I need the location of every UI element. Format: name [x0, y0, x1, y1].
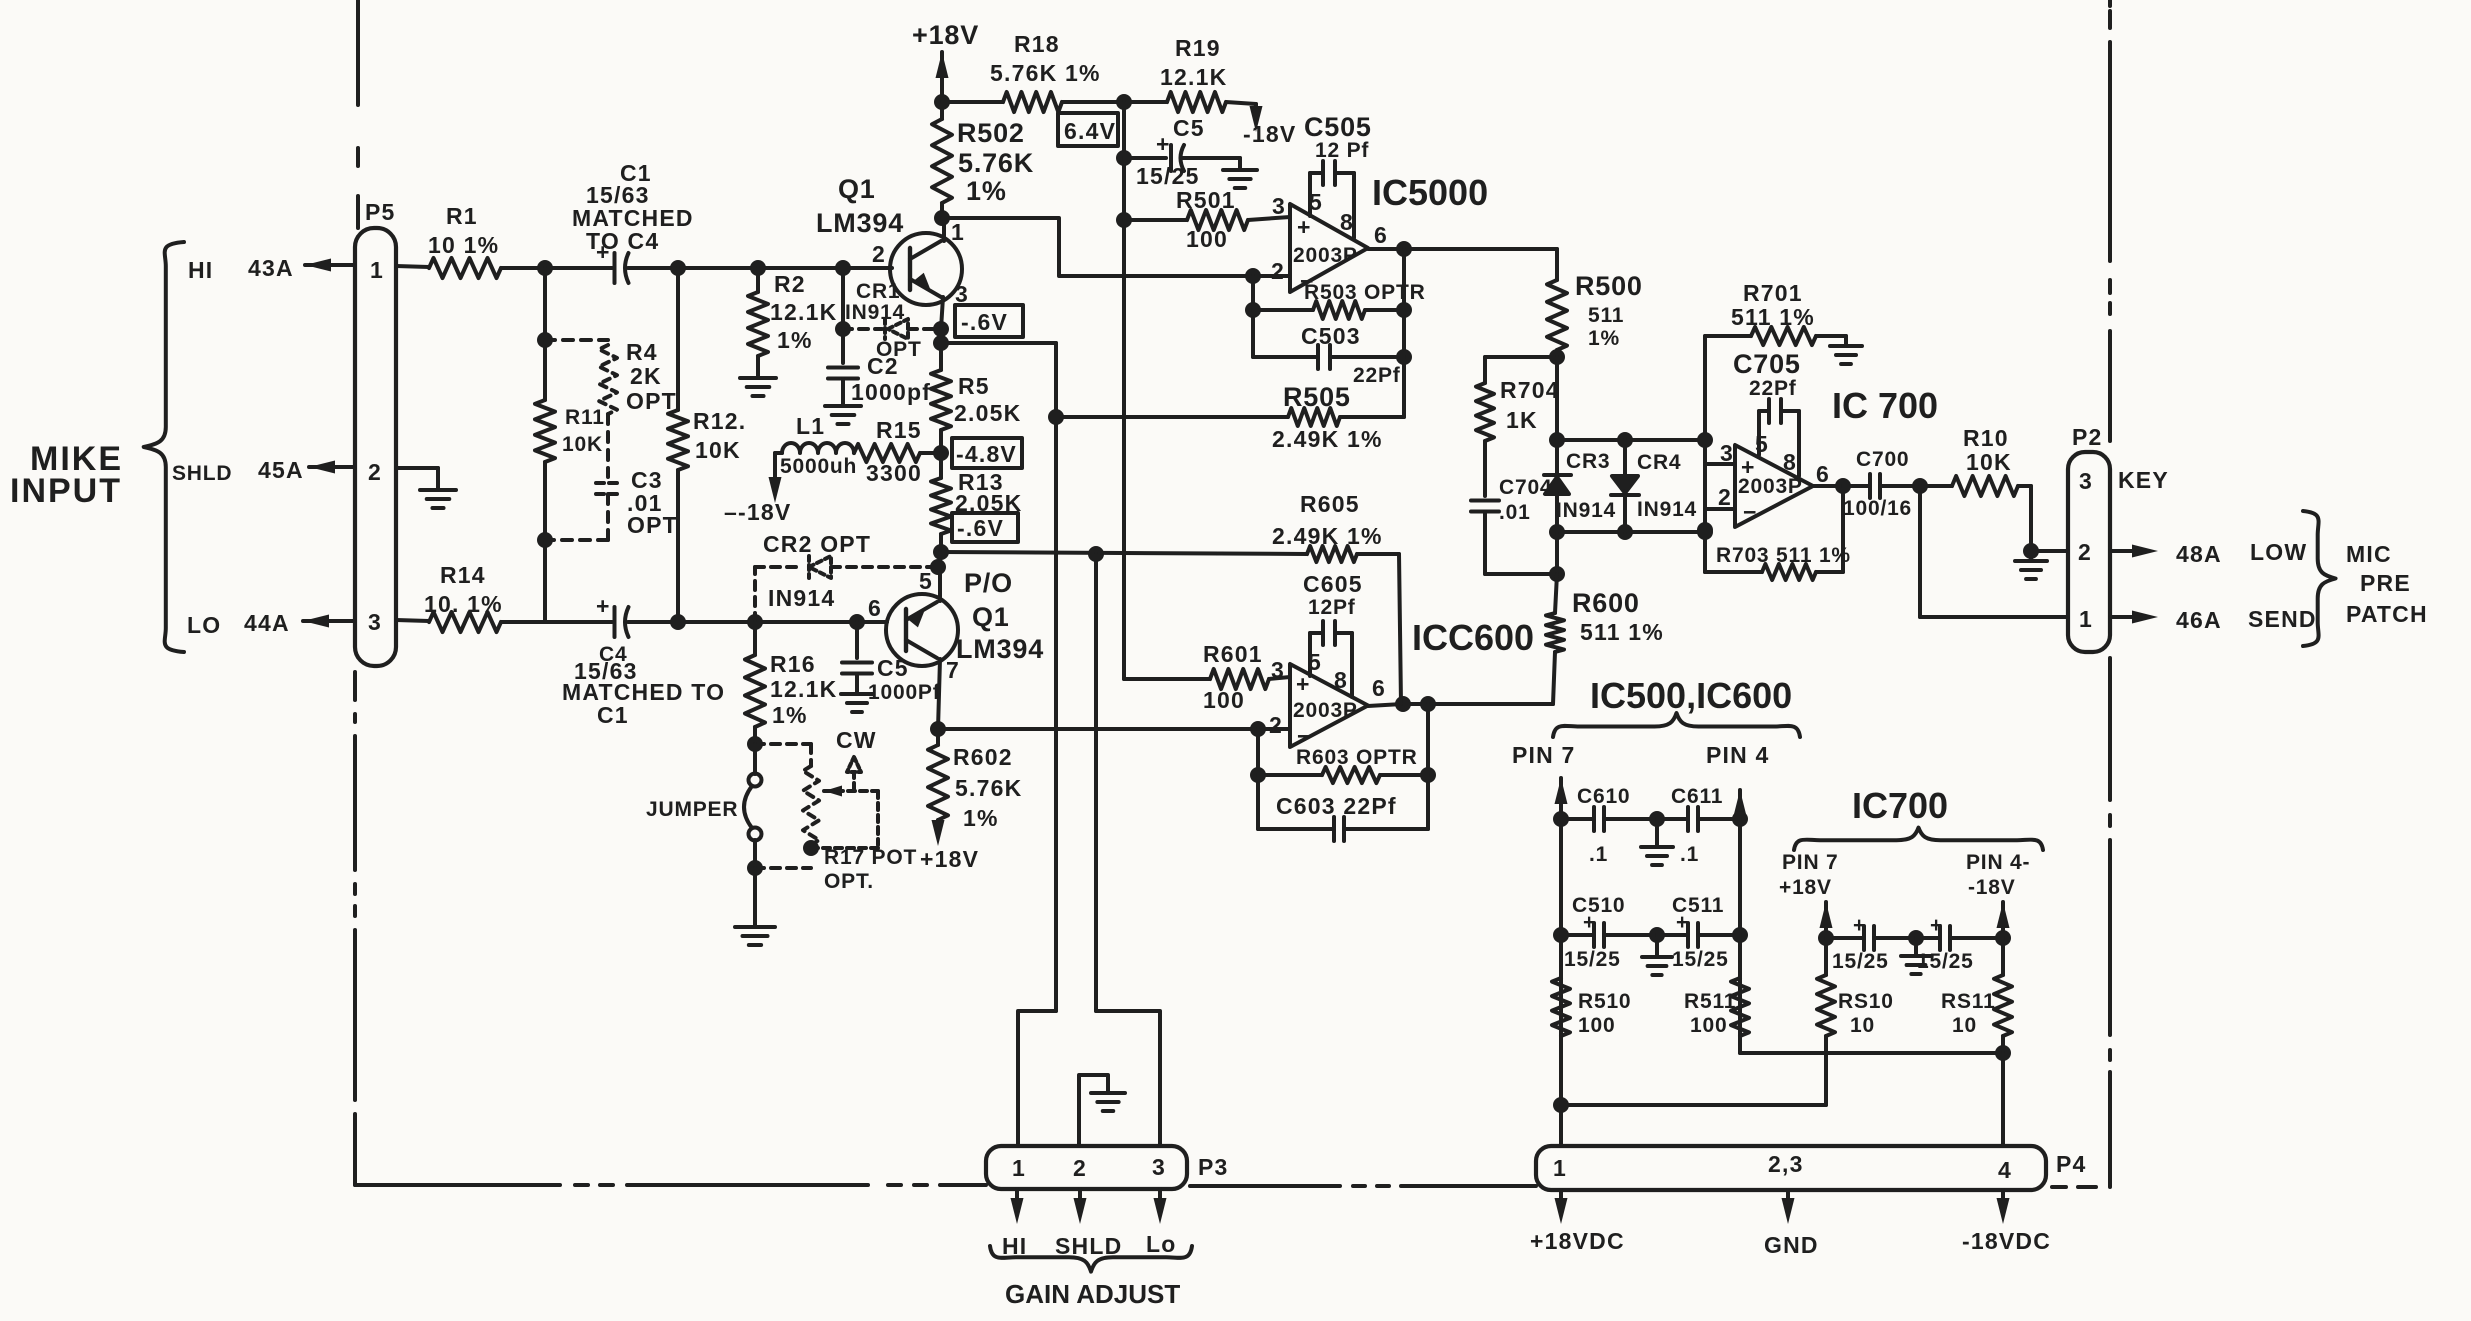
svg-text:+: +: [596, 593, 611, 619]
wire P2 pin1 out: [2110, 606, 2317, 633]
capacitor IC700 right 15/25: [1916, 914, 2003, 973]
wire IC700 input rail: [1697, 336, 1735, 572]
svg-text:IN914: IN914: [1556, 499, 1616, 522]
svg-text:R2: R2: [774, 271, 806, 297]
brace mike input: [144, 242, 184, 652]
pin 2 of P2: [2078, 539, 2092, 565]
node MIKE INPUT label: [10, 440, 123, 510]
brace IC700 power: [1794, 828, 2043, 850]
svg-text:Q1: Q1: [972, 602, 1010, 632]
svg-text:3: 3: [2079, 468, 2093, 494]
svg-text:2: 2: [1269, 712, 1283, 738]
svg-text:R703 511 1%: R703 511 1%: [1716, 544, 1851, 567]
resistor R503 (OPTR): [1253, 281, 1426, 319]
svg-text:10: 10: [1850, 1014, 1875, 1037]
capacitor C611: [1657, 785, 1740, 866]
wire C2 to ground: [841, 379, 845, 404]
resistor R510 (10): [1817, 975, 1894, 1105]
svg-text:R5: R5: [958, 373, 990, 399]
svg-text:IC500,IC600: IC500,IC600: [1590, 675, 1792, 716]
capacitor C3 (dashed, OPT): [596, 467, 678, 538]
svg-text:1: 1: [1553, 1155, 1567, 1181]
diode CR2 (dashed, OPT): [755, 531, 938, 622]
svg-text:R602: R602: [953, 744, 1013, 770]
ground between C610 C611: [1641, 811, 1673, 865]
svg-text:MATCHED TO: MATCHED TO: [562, 679, 725, 705]
svg-text:CR2 OPT: CR2 OPT: [763, 531, 871, 557]
capacitor IC700 left 15/25: [1826, 914, 1916, 973]
node SHLD 45A label: [172, 457, 304, 485]
resistor R605: [1272, 491, 1399, 562]
svg-text:.1: .1: [1589, 843, 1608, 866]
wire HI arrow: [305, 259, 355, 272]
svg-text:2003P: 2003P: [1738, 475, 1803, 498]
wire P4 pin2,3 arrow: [1782, 1190, 1795, 1224]
svg-text:C5: C5: [877, 655, 909, 681]
power -18V arrow (R19): [1243, 104, 1296, 147]
svg-text:2: 2: [368, 459, 382, 485]
svg-text:3: 3: [1720, 440, 1734, 466]
pin 4 of P4: [1998, 1157, 2012, 1183]
capacitor C704: [1471, 476, 1552, 524]
wire R1 to C1: [501, 260, 612, 276]
svg-text:C5: C5: [1173, 115, 1205, 141]
connector P5: [355, 199, 396, 666]
svg-text:15/25: 15/25: [1136, 163, 1200, 189]
svg-text:HI: HI: [188, 257, 213, 283]
svg-text:HI: HI: [1002, 1233, 1027, 1259]
pin 2,3 of P4: [1768, 1151, 1804, 1177]
node PIN 4 -18V label: [1966, 851, 2030, 899]
voltage label -.6V box (lower): [952, 513, 1018, 542]
wire IC500 output: [1368, 241, 1557, 257]
svg-text:IN914: IN914: [1637, 498, 1697, 521]
pin 1 of P2: [2079, 606, 2093, 632]
svg-text:R19: R19: [1175, 35, 1221, 61]
svg-text:15/25: 15/25: [1917, 950, 1974, 973]
pin 2 of P5: [368, 459, 382, 485]
resistor R602: [928, 729, 1022, 846]
svg-text:12.1K: 12.1K: [770, 299, 837, 325]
wire R510 bottom row: [1561, 1103, 1826, 1107]
svg-text:8: 8: [1340, 209, 1354, 235]
svg-text:10 1%: 10 1%: [428, 232, 499, 258]
voltage label -4.8V box: [952, 438, 1022, 468]
resistor R18: [942, 31, 1124, 112]
svg-text:PRE: PRE: [2360, 570, 2411, 596]
resistor R603 (OPTR): [1258, 746, 1428, 783]
wire P5 pin1 to R1: [396, 266, 429, 267]
svg-text:P2: P2: [2072, 424, 2103, 450]
svg-text:IC700: IC700: [1852, 785, 1948, 826]
wire P4 pin4 arrow: [1997, 1190, 2010, 1224]
svg-text:+: +: [1156, 131, 1171, 157]
brace mic pre patch: [2303, 511, 2336, 646]
svg-text:2: 2: [872, 241, 886, 267]
svg-text:1000pf: 1000pf: [851, 379, 931, 405]
node KEY label: [2118, 467, 2169, 493]
svg-text:1%: 1%: [1588, 327, 1620, 350]
wire P3 pin2 arrow: [1074, 1189, 1087, 1224]
svg-text:6: 6: [868, 595, 882, 621]
svg-text:-.6V: -.6V: [957, 515, 1004, 541]
svg-text:R601: R601: [1203, 641, 1263, 667]
ground at C2: [825, 406, 861, 424]
svg-text:SHLD: SHLD: [172, 462, 232, 485]
svg-text:2: 2: [2078, 539, 2092, 565]
capacitor C505: [1304, 112, 1372, 238]
svg-text:1000Pf: 1000Pf: [868, 681, 941, 704]
wire R13 node to R605: [941, 546, 1307, 562]
connector P2: [2068, 424, 2110, 652]
svg-text:P/O: P/O: [964, 568, 1013, 598]
svg-text:1%: 1%: [963, 805, 999, 831]
svg-text:100: 100: [1186, 226, 1228, 252]
resistor R14: [424, 562, 503, 632]
svg-text:TO C4: TO C4: [586, 228, 659, 254]
svg-text:PIN 4-: PIN 4-: [1966, 851, 2030, 874]
resistor R13: [931, 453, 1022, 552]
svg-text:R12.: R12.: [693, 408, 746, 434]
svg-text:10: 10: [1952, 1014, 1977, 1037]
svg-text:KEY: KEY: [2118, 467, 2169, 493]
svg-text:Q1: Q1: [838, 174, 876, 204]
capacitor C1: [572, 160, 694, 283]
node IC500,IC600 label: [1590, 675, 1792, 716]
ground at jumper: [735, 927, 775, 945]
svg-text:43A: 43A: [248, 255, 294, 281]
wire 6.4V rail: [1116, 102, 1132, 675]
capacitor C503: [1253, 323, 1404, 387]
wire IC600 fb rail: [1250, 704, 1436, 829]
svg-text:+18V: +18V: [920, 846, 979, 872]
power +18V arrow: [912, 20, 979, 102]
svg-text:R510: R510: [1578, 990, 1631, 1013]
wire C704 to R600 rail: [1485, 512, 1565, 582]
resistor R15: [854, 417, 941, 486]
op-amp IC5000 (2003P): [1271, 172, 1488, 294]
ground IC700 caps: [1901, 930, 1931, 974]
svg-text:LO: LO: [187, 612, 221, 638]
svg-text:22Pf: 22Pf: [1353, 364, 1401, 387]
svg-text:R11: R11: [565, 406, 605, 429]
svg-text:R14: R14: [440, 562, 486, 588]
node MIC PRE PATCH label: [2346, 541, 2428, 627]
op-amp IC700 (2003P): [1718, 385, 1938, 527]
node C700 output: [1912, 478, 1928, 494]
resistor R511 (100): [1684, 978, 1749, 1053]
op-amp ICC600 (2003P): [1269, 617, 1534, 749]
ground between C510 C511: [1642, 927, 1672, 975]
node PIN 7 +18V label: [1779, 851, 1839, 899]
wire R4 to C3 (dashed): [606, 414, 610, 477]
svg-text:8: 8: [1783, 449, 1797, 475]
svg-text:OPT: OPT: [626, 388, 677, 414]
svg-text:10K: 10K: [695, 437, 741, 463]
resistor R502: [932, 94, 1034, 226]
svg-text:6.4V: 6.4V: [1064, 118, 1116, 144]
svg-text:INPUT: INPUT: [10, 472, 122, 510]
resistor R5: [931, 329, 1021, 453]
svg-text:C610: C610: [1577, 785, 1630, 808]
wire Q1 collector to IC500 pin2: [942, 218, 1290, 284]
svg-text:C603 22Pf: C603 22Pf: [1276, 793, 1397, 819]
capacitor C511: [1657, 894, 1740, 971]
node PIN 4 label (left): [1706, 742, 1770, 768]
svg-text:C2: C2: [867, 353, 899, 379]
svg-text:5: 5: [919, 568, 933, 594]
svg-text:5.76K: 5.76K: [958, 148, 1034, 178]
svg-text:100: 100: [1203, 687, 1245, 713]
svg-text:R603 OPTR: R603 OPTR: [1296, 746, 1418, 769]
potentiometer R17 (dashed, OPT): [803, 727, 917, 893]
svg-text:100/16: 100/16: [1843, 497, 1912, 520]
wire Q1 base branch: [835, 260, 851, 337]
svg-text:C503: C503: [1301, 323, 1361, 349]
inductor L1: [780, 413, 857, 478]
resistor R510 (100): [1552, 978, 1631, 1037]
svg-text:4: 4: [1998, 1157, 2012, 1183]
svg-text:2.49K 1%: 2.49K 1%: [1272, 426, 1383, 452]
svg-text:7: 7: [946, 657, 960, 683]
wire jumper to R17 (dashed): [755, 866, 811, 870]
wire jumper to ground: [753, 868, 757, 925]
svg-text:10K: 10K: [562, 433, 603, 456]
svg-text:3300: 3300: [866, 460, 922, 486]
svg-text:IN914: IN914: [768, 585, 835, 611]
svg-text:2003P: 2003P: [1293, 244, 1358, 267]
svg-text:3: 3: [1271, 657, 1285, 683]
svg-text:R500: R500: [1575, 271, 1643, 301]
svg-text:.01: .01: [1499, 501, 1531, 524]
wire C4 to Q1b base: [628, 614, 887, 630]
svg-text:PATCH: PATCH: [2346, 601, 2428, 627]
wire right border (dash-dot): [2108, 0, 2112, 1187]
svg-text:2,3: 2,3: [1768, 1151, 1804, 1177]
svg-text:R1: R1: [446, 203, 478, 229]
capacitor C510: [1561, 894, 1657, 971]
svg-text:-.6V: -.6V: [961, 309, 1008, 335]
wire P5 pin2 to ground: [396, 468, 438, 488]
svg-text:+18V: +18V: [1779, 876, 1832, 899]
svg-text:3: 3: [1152, 1154, 1166, 1180]
ground at gain adjust: [1091, 1093, 1125, 1111]
transistor Q1 bottom (P/O LM394): [868, 568, 1044, 683]
resistor R703: [1705, 486, 1851, 580]
wire C1 to Q1 base: [628, 260, 892, 276]
svg-text:LOW: LOW: [2250, 539, 2307, 565]
svg-text:12Pf: 12Pf: [1308, 596, 1356, 619]
svg-text:6: 6: [1374, 222, 1388, 248]
svg-text:R15: R15: [876, 417, 922, 443]
pin 3 of P5: [368, 609, 382, 635]
svg-text:511 1%: 511 1%: [1580, 619, 1664, 645]
svg-text:C700: C700: [1856, 448, 1909, 471]
svg-text:IC 700: IC 700: [1832, 385, 1938, 426]
resistor R601: [1203, 641, 1290, 713]
svg-text:LM394: LM394: [956, 634, 1044, 664]
svg-text:-18V: -18V: [1243, 121, 1296, 147]
svg-text:1%: 1%: [772, 702, 808, 728]
svg-text:C611: C611: [1671, 785, 1723, 808]
svg-text:22Pf: 22Pf: [1749, 377, 1797, 400]
svg-text:12.1K: 12.1K: [770, 676, 837, 702]
jumper: [646, 744, 763, 876]
wire IC700 -18V rail: [1995, 902, 2011, 975]
wire Q1b collector: [930, 552, 946, 601]
svg-text:+18VDC: +18VDC: [1530, 1228, 1625, 1254]
svg-text:3: 3: [368, 609, 382, 635]
power -18V (L1): [724, 499, 791, 525]
svg-text:R501: R501: [1176, 187, 1236, 213]
svg-text:R16: R16: [770, 651, 816, 677]
svg-text:P5: P5: [365, 199, 396, 225]
svg-text:46A: 46A: [2176, 607, 2222, 633]
svg-text:44A: 44A: [244, 610, 290, 636]
svg-text:2: 2: [1073, 1155, 1087, 1181]
wire IC600 output: [1368, 696, 1553, 712]
svg-text:C510: C510: [1572, 894, 1625, 917]
svg-text:2K: 2K: [630, 363, 662, 389]
node +18VDC label: [1530, 1228, 1625, 1254]
capacitor C603: [1258, 793, 1428, 841]
brace IC500 IC600: [1553, 713, 1800, 737]
wire Q1 emitter down: [933, 297, 949, 337]
svg-text:C605: C605: [1303, 571, 1363, 597]
capacitor C2: [828, 353, 931, 405]
pin 1 of P4: [1553, 1155, 1567, 1181]
resistor R11: [535, 268, 605, 621]
wire IC700 output: [1813, 478, 1851, 494]
pin 1 of P5: [370, 257, 384, 283]
capacitor C5 (1000Pf): [842, 622, 941, 704]
wire Q1 collector to node: [942, 218, 946, 241]
diode CR3 (IN914): [1544, 440, 1616, 532]
wire rail A (gain adjust left): [1048, 343, 1064, 1011]
pin 3 of P3: [1152, 1154, 1166, 1180]
svg-text:15/25: 15/25: [1832, 950, 1889, 973]
svg-text:R511: R511: [1684, 990, 1736, 1013]
svg-text:6: 6: [1816, 461, 1830, 487]
svg-text:5.76K: 5.76K: [955, 775, 1022, 801]
ground at R701: [1830, 346, 1862, 364]
wire R511-10 to P4 pin4: [2001, 1053, 2005, 1146]
svg-text:15/25: 15/25: [1564, 948, 1621, 971]
node GAIN ADJUST label: [1005, 1279, 1180, 1309]
node GND label: [1764, 1232, 1819, 1258]
resistor R511 (10): [1941, 975, 2012, 1053]
svg-text:GND: GND: [1764, 1232, 1819, 1258]
node LO 44A label: [187, 610, 290, 638]
svg-text:JUMPER: JUMPER: [646, 798, 738, 821]
capacitor C4: [562, 593, 725, 728]
capacitor C700: [1843, 448, 1920, 520]
wire CR row rail: [1549, 357, 1713, 574]
capacitor C5 (15/25): [1124, 115, 1240, 189]
wire PIN7 rail: [1553, 778, 1569, 1146]
wire Q1b emitter row: [938, 721, 1290, 737]
svg-text:R600: R600: [1572, 588, 1640, 618]
svg-text:LM394: LM394: [816, 208, 904, 238]
svg-text:R503 OPTR: R503 OPTR: [1304, 281, 1426, 304]
svg-text:PIN 7: PIN 7: [1782, 851, 1839, 874]
wire gain adjust box: [1018, 1011, 1160, 1146]
wire dashed to R4: [545, 338, 608, 342]
svg-text:1%: 1%: [966, 176, 1007, 206]
wire LO arrow: [303, 615, 355, 628]
svg-text:1: 1: [2079, 606, 2093, 632]
svg-text:CR3: CR3: [1566, 450, 1610, 473]
node -18VDC label: [1962, 1228, 2051, 1254]
resistor R701: [1705, 280, 1846, 345]
power +18V (R602): [920, 846, 979, 872]
voltage label -.6V box (Q1 emitter): [955, 305, 1023, 337]
ground at C5b: [841, 694, 873, 712]
resistor R505: [1056, 382, 1404, 452]
svg-text:6: 6: [1372, 675, 1386, 701]
wire rail B (gain adjust right): [1094, 554, 1098, 1011]
node HI SHLD LO labels: [1002, 1231, 1177, 1259]
wire left border (dash-dot): [355, 0, 358, 1185]
svg-text:CW: CW: [836, 727, 877, 753]
svg-text:MIC: MIC: [2346, 541, 2392, 567]
svg-text:12.1K: 12.1K: [1160, 64, 1227, 90]
svg-text:C705: C705: [1733, 349, 1801, 379]
node 6.4V junction: [1116, 94, 1132, 110]
wire R605 to IC600 output: [1399, 554, 1401, 704]
svg-text:R704: R704: [1500, 377, 1560, 403]
svg-text:R605: R605: [1300, 491, 1360, 517]
svg-text:5000uh: 5000uh: [780, 455, 857, 478]
resistor R501: [1124, 187, 1290, 252]
svg-text:CR4: CR4: [1637, 451, 1681, 474]
diode CR1 (dashed, OPT): [843, 280, 940, 361]
resistor R500: [1547, 249, 1643, 357]
svg-text:511 1%: 511 1%: [1731, 304, 1815, 330]
capacitor C610: [1561, 785, 1657, 866]
wire Q1b emitter down: [930, 659, 946, 737]
svg-text:P3: P3: [1198, 1154, 1229, 1180]
svg-text:ICC600: ICC600: [1412, 617, 1534, 658]
svg-text:R701: R701: [1743, 280, 1803, 306]
svg-text:2.49K 1%: 2.49K 1%: [1272, 523, 1383, 549]
wire Q1 emitter tap: [933, 335, 1056, 351]
wire P5 pin3 to R14: [396, 620, 429, 621]
resistor R1: [428, 203, 501, 278]
wire R500 to R704: [1485, 349, 1565, 365]
wire CR1 to C2: [841, 329, 845, 363]
wire P4 pin1 arrow: [1555, 1190, 1568, 1224]
svg-text:2: 2: [1718, 484, 1732, 510]
wire bottom border right (dash): [2052, 1185, 2096, 1189]
svg-text:.1: .1: [1680, 843, 1699, 866]
wire P2 pin2 out: [2110, 539, 2307, 567]
svg-text:R18: R18: [1014, 31, 1060, 57]
resistor R19: [1124, 35, 1256, 112]
svg-text:1%: 1%: [777, 327, 813, 353]
transistor Q1 (top half LM394): [816, 174, 969, 307]
wire IC700 +18V rail: [1818, 902, 1834, 975]
pin 1 of P3: [1012, 1155, 1026, 1181]
svg-text:C1: C1: [597, 702, 629, 728]
svg-text:-18VDC: -18VDC: [1962, 1228, 2051, 1254]
wire R14 to C4: [501, 620, 612, 624]
svg-text:100: 100: [1578, 1014, 1615, 1037]
wire R511 bottom: [1740, 1045, 2011, 1061]
ground at P5 pin2: [420, 490, 456, 508]
svg-text:PIN 4: PIN 4: [1706, 742, 1770, 768]
svg-text:R502: R502: [957, 118, 1025, 148]
